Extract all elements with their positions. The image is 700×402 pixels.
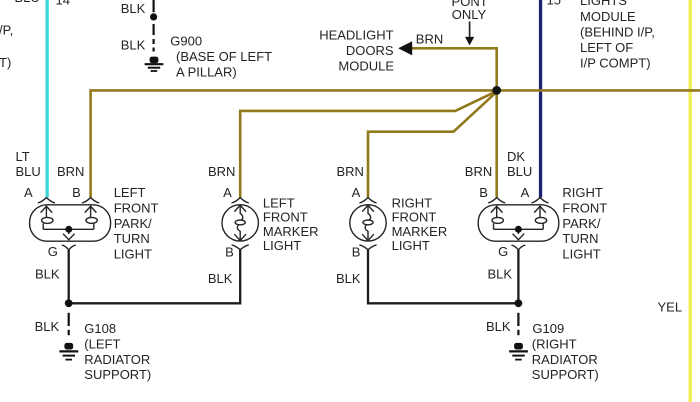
svg-text:A: A — [352, 185, 361, 200]
svg-text:PARK/: PARK/ — [562, 216, 600, 231]
svg-text:(BEHIND I/P,: (BEHIND I/P, — [580, 24, 655, 39]
svg-text:B: B — [72, 185, 81, 200]
svg-text:BRN: BRN — [208, 164, 235, 179]
svg-text:LIGHT: LIGHT — [263, 238, 301, 253]
svg-text:G: G — [48, 244, 58, 259]
svg-text:BLK: BLK — [208, 271, 233, 286]
svg-text:HEADLIGHT: HEADLIGHT — [319, 27, 393, 42]
svg-text:LEFT OF: LEFT OF — [580, 40, 633, 55]
svg-text:LIGHT: LIGHT — [392, 238, 430, 253]
svg-text:FRONT: FRONT — [263, 210, 308, 225]
svg-text:G: G — [498, 244, 508, 259]
svg-text:I/P COMPT): I/P COMPT) — [580, 56, 651, 71]
svg-text:LEFT: LEFT — [263, 195, 295, 210]
svg-text:BLU: BLU — [15, 0, 40, 5]
svg-text:BLK: BLK — [488, 267, 513, 282]
svg-text:B: B — [352, 245, 361, 260]
svg-text:SUPPORT): SUPPORT) — [84, 367, 151, 382]
svg-text:G109: G109 — [532, 321, 564, 336]
svg-text:BLK: BLK — [35, 267, 60, 282]
svg-text:/P,: /P, — [0, 23, 13, 38]
svg-text:MARKER: MARKER — [392, 224, 448, 239]
svg-text:BLK: BLK — [336, 271, 361, 286]
svg-text:RIGHT: RIGHT — [392, 195, 433, 210]
svg-text:RIGHT: RIGHT — [562, 185, 603, 200]
svg-text:ONLY: ONLY — [452, 7, 487, 22]
svg-text:LIGHTS: LIGHTS — [580, 0, 627, 8]
svg-text:A: A — [24, 185, 33, 200]
svg-text:BRN: BRN — [465, 164, 492, 179]
svg-text:FRONT: FRONT — [114, 201, 159, 216]
svg-text:15: 15 — [547, 0, 561, 7]
svg-text:A: A — [521, 185, 530, 200]
svg-text:G900: G900 — [170, 33, 202, 48]
svg-text:LIGHT: LIGHT — [562, 246, 600, 261]
svg-text:MARKER: MARKER — [263, 224, 319, 239]
svg-text:BRN: BRN — [57, 164, 84, 179]
svg-text:TURN: TURN — [114, 231, 150, 246]
svg-text:BLU: BLU — [507, 164, 532, 179]
svg-text:LEFT: LEFT — [114, 185, 146, 200]
svg-text:A: A — [223, 185, 232, 200]
svg-text:A PILLAR): A PILLAR) — [176, 64, 237, 79]
svg-text:BLK: BLK — [486, 319, 511, 334]
svg-text:T): T) — [0, 55, 11, 70]
svg-text:MODULE: MODULE — [580, 9, 636, 24]
svg-text:BLU: BLU — [16, 164, 41, 179]
svg-text:BRN: BRN — [416, 31, 443, 46]
svg-text:(LEFT: (LEFT — [84, 336, 120, 351]
svg-text:YEL: YEL — [658, 300, 683, 315]
svg-text:BRN: BRN — [337, 164, 364, 179]
svg-text:B: B — [479, 185, 488, 200]
svg-text:FRONT: FRONT — [562, 201, 607, 216]
svg-text:MODULE: MODULE — [338, 59, 394, 74]
svg-text:TURN: TURN — [562, 231, 598, 246]
svg-text:B: B — [225, 245, 234, 260]
svg-text:SUPPORT): SUPPORT) — [532, 367, 599, 382]
svg-text:BLK: BLK — [35, 319, 60, 334]
svg-text:BLK: BLK — [121, 1, 146, 16]
svg-text:DOORS: DOORS — [346, 43, 394, 58]
svg-text:LIGHT: LIGHT — [114, 246, 152, 261]
svg-text:FRONT: FRONT — [392, 210, 437, 225]
svg-text:RADIATOR: RADIATOR — [532, 352, 598, 367]
svg-text:(BASE OF LEFT: (BASE OF LEFT — [176, 49, 272, 64]
svg-text:LT: LT — [16, 149, 30, 164]
svg-text:PARK/: PARK/ — [114, 216, 152, 231]
svg-text:(RIGHT: (RIGHT — [532, 336, 577, 351]
svg-text:G108: G108 — [84, 321, 116, 336]
svg-text:RADIATOR: RADIATOR — [84, 352, 150, 367]
svg-text:DK: DK — [507, 149, 525, 164]
svg-text:BLK: BLK — [121, 37, 146, 52]
svg-text:14: 14 — [56, 0, 70, 7]
